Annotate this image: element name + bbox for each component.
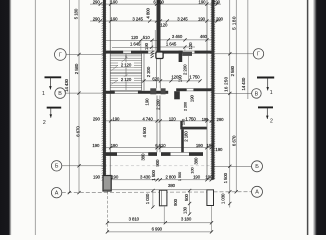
wall low winB — [171, 152, 190, 154]
dim row7 line — [104, 147, 214, 149]
wall center lower line b — [159, 96, 161, 153]
svg-text:190: 190 — [178, 75, 183, 83]
svg-text:190: 190 — [196, 143, 204, 148]
ext line bath left — [154, 30, 156, 50]
grid bubble V right — [252, 89, 262, 99]
wall left footing — [103, 176, 111, 192]
svg-text:120: 120 — [131, 35, 139, 40]
dim row6 line — [104, 120, 214, 122]
wall top right segA — [160, 51, 182, 54]
svg-text:2 580: 2 580 — [230, 65, 235, 76]
svg-text:130: 130 — [182, 206, 187, 214]
svg-text:2: 2 — [270, 118, 273, 124]
svg-text:190: 190 — [111, 175, 119, 180]
stair U-flights — [110, 54, 141, 90]
dim row4 left — [112, 46, 157, 48]
svg-text:Б: Б — [55, 164, 59, 170]
svg-text:1 500: 1 500 — [151, 170, 156, 181]
svg-text:190: 190 — [202, 117, 209, 122]
grid bubble B left — [51, 161, 61, 171]
right dim line v1 — [229, 0, 231, 208]
wall right-unit corridor stub — [180, 121, 182, 127]
svg-text:190: 190 — [193, 175, 201, 180]
sheet edge line left — [34, 0, 36, 235]
svg-text:4 800: 4 800 — [146, 8, 151, 19]
dim row3 left — [104, 39, 157, 41]
wall top right opening — [183, 50, 195, 52]
wall top left thin — [148, 50, 156, 52]
svg-text:900: 900 — [155, 159, 160, 167]
svg-text:500: 500 — [184, 193, 189, 201]
svg-text:130: 130 — [180, 118, 185, 125]
svg-text:120: 120 — [169, 117, 177, 122]
svg-text:2 200: 2 200 — [182, 64, 187, 75]
ext line r3 b — [151, 40, 153, 50]
dim row4 right — [161, 46, 196, 48]
svg-text:510: 510 — [143, 35, 151, 40]
svg-text:3 245: 3 245 — [177, 16, 188, 21]
wall mid-left opening — [115, 90, 138, 92]
wall low segA — [104, 152, 117, 156]
svg-text:В: В — [58, 91, 62, 97]
grid line A left — [62, 192, 104, 194]
grid line B inside — [104, 165, 213, 167]
svg-text:190: 190 — [215, 147, 223, 152]
grid bubble V left — [55, 88, 66, 99]
svg-text:3 245: 3 245 — [132, 16, 143, 21]
grid bubble A left — [51, 188, 61, 198]
svg-text:А: А — [55, 191, 59, 197]
grid line B left — [62, 165, 103, 167]
photo letterbox bar left — [0, 0, 12, 235]
svg-text:290: 290 — [93, 16, 101, 21]
svg-text:1 750: 1 750 — [185, 117, 196, 122]
grid line A right — [214, 191, 252, 193]
svg-text:120: 120 — [160, 22, 168, 27]
porch edge line — [104, 189, 214, 191]
svg-text:190: 190 — [111, 16, 119, 21]
wall mid-right opening — [187, 88, 194, 90]
wall top left segA — [104, 51, 123, 54]
wall top right segB — [195, 51, 212, 54]
svg-text:190: 190 — [145, 98, 150, 106]
section mark 1 right — [257, 77, 274, 79]
svg-text:900: 900 — [173, 198, 178, 206]
svg-text:460: 460 — [200, 34, 208, 39]
left dim line v1 — [68, 0, 70, 193]
svg-text:190: 190 — [93, 175, 101, 180]
grid bubble G right — [253, 49, 263, 59]
svg-text:1 500: 1 500 — [223, 172, 228, 183]
svg-text:16 250: 16 250 — [223, 76, 228, 91]
svg-text:1 750: 1 750 — [189, 75, 200, 80]
svg-text:А: А — [255, 190, 259, 196]
grid line A inside — [104, 191, 214, 193]
dim row9 line — [107, 222, 211, 224]
dim row10 line — [107, 231, 211, 233]
svg-text:190: 190 — [144, 42, 149, 50]
ext line r3 a — [140, 40, 142, 53]
svg-text:290: 290 — [93, 0, 101, 4]
svg-text:380: 380 — [194, 157, 199, 165]
wall left inner face — [109, 0, 111, 180]
svg-text:3 460: 3 460 — [172, 34, 183, 39]
svg-text:Г: Г — [59, 52, 62, 58]
svg-text:190: 190 — [112, 117, 120, 122]
svg-text:6 670: 6 670 — [231, 135, 236, 146]
ext line porch dim right — [189, 190, 191, 215]
grid line V left — [65, 92, 103, 94]
dim row5 620 — [142, 80, 201, 82]
wall top left segB — [131, 51, 148, 54]
ext line r4 r — [184, 47, 186, 51]
grid line G left — [66, 54, 103, 56]
stair label flight2 halo — [118, 77, 134, 82]
svg-text:14 430: 14 430 — [241, 77, 246, 90]
svg-text:190: 190 — [198, 16, 206, 21]
svg-text:290: 290 — [93, 117, 101, 122]
wall center lower line a — [156, 96, 158, 153]
svg-text:190: 190 — [92, 143, 100, 148]
dim row2 line — [90, 20, 221, 22]
dim row1 line — [90, 3, 221, 5]
svg-text:5 180: 5 180 — [231, 16, 236, 30]
right dim line v2 — [235, 0, 237, 192]
dimension ticks — [68, 3, 238, 234]
wall left exterior band — [103, 0, 106, 180]
svg-text:4 500: 4 500 — [142, 126, 147, 137]
svg-text:620: 620 — [152, 77, 160, 82]
grid line G right — [214, 53, 253, 55]
svg-text:14 430: 14 430 — [64, 78, 69, 91]
fixture vanity right unit — [182, 52, 192, 56]
wall low segD — [189, 152, 203, 156]
svg-text:В: В — [255, 91, 259, 97]
grid line B right — [214, 165, 251, 167]
svg-text:2 200: 2 200 — [156, 99, 161, 110]
wall right-unit bath vertical — [179, 51, 183, 62]
svg-text:3 810: 3 810 — [129, 217, 140, 222]
dim line v right-unit — [187, 56, 189, 81]
wall right inner face — [206, 0, 208, 180]
grid bubble B right — [252, 161, 263, 172]
svg-text:290: 290 — [217, 117, 225, 122]
dim row8 line — [104, 179, 214, 181]
svg-text:4 740: 4 740 — [142, 117, 153, 122]
svg-text:190: 190 — [111, 0, 119, 4]
door hatch marks left bath — [151, 51, 154, 58]
stair label flight1 halo — [118, 62, 134, 67]
section mark 1 left — [45, 76, 62, 78]
fixture WC on axis — [156, 52, 163, 59]
porch column left inner line — [160, 190, 162, 206]
wall mid-right segA — [176, 88, 187, 91]
wall right-unit bedroom vertical — [181, 129, 184, 152]
svg-text:2 200: 2 200 — [184, 102, 188, 111]
section mark 2 left — [47, 107, 62, 109]
svg-text:6 600: 6 600 — [153, 0, 164, 5]
ext line bottom right — [211, 206, 213, 233]
wall mid-left segA — [104, 91, 115, 94]
wall stair partition — [141, 54, 143, 91]
svg-text:2 800: 2 800 — [166, 175, 177, 180]
svg-text:190: 190 — [190, 94, 195, 102]
grid line V right — [214, 92, 251, 94]
svg-text:2 120: 2 120 — [121, 77, 132, 82]
svg-text:3 180: 3 180 — [181, 217, 192, 222]
right bubble leader — [247, 0, 249, 99]
wall right column footing — [207, 190, 214, 206]
svg-text:5 180: 5 180 — [74, 8, 79, 19]
wall low winA — [117, 152, 148, 154]
svg-text:Б: Б — [255, 164, 259, 170]
wall mid-right segB — [193, 88, 211, 91]
wall mid-left segB — [138, 91, 168, 94]
svg-text:380: 380 — [168, 183, 176, 188]
wall left hatch — [102, 1, 107, 180]
ext line bottom left — [106, 192, 108, 233]
svg-text:Г: Г — [257, 52, 260, 58]
section mark 2 right — [258, 106, 273, 108]
svg-text:290: 290 — [213, 0, 221, 4]
svg-text:6 610: 6 610 — [155, 143, 166, 148]
svg-text:2 120: 2 120 — [121, 62, 132, 67]
porch column left — [159, 190, 167, 206]
svg-text:290: 290 — [216, 16, 224, 21]
svg-text:2 580: 2 580 — [74, 63, 79, 74]
svg-text:190: 190 — [199, 0, 207, 4]
svg-text:380: 380 — [141, 153, 146, 161]
wall top left opening — [123, 50, 131, 52]
sheet edge line right — [307, 0, 309, 235]
svg-text:190: 190 — [206, 143, 214, 148]
wall low segB — [148, 152, 157, 156]
svg-text:6 670: 6 670 — [75, 126, 80, 137]
svg-text:120: 120 — [188, 42, 193, 50]
wall mid-right stub — [174, 91, 180, 99]
svg-text:1 645: 1 645 — [130, 42, 141, 47]
left dim line v2 — [78, 0, 80, 193]
fixture kitchen right — [161, 88, 166, 94]
svg-text:2: 2 — [43, 120, 46, 126]
svg-text:3 430: 3 430 — [140, 175, 151, 180]
svg-text:1 645: 1 645 — [166, 41, 177, 46]
dim row3 right — [161, 39, 214, 41]
svg-text:1 030: 1 030 — [145, 193, 150, 204]
wall center mid thin — [155, 59, 157, 89]
svg-text:1: 1 — [270, 90, 273, 96]
svg-text:1: 1 — [42, 91, 45, 97]
fixture kitchen left — [150, 88, 156, 94]
svg-text:2 200: 2 200 — [146, 66, 151, 77]
svg-text:1 030: 1 030 — [221, 193, 226, 204]
ext line bottom mid — [163, 207, 165, 224]
wall right hatch — [211, 1, 216, 180]
photo letterbox bar right — [313, 0, 326, 235]
svg-text:2 180: 2 180 — [184, 131, 189, 142]
grid bubble G left — [55, 49, 67, 61]
svg-text:190: 190 — [111, 143, 119, 148]
wall right-unit corridor — [180, 127, 207, 130]
svg-text:100: 100 — [190, 166, 195, 173]
svg-text:1 500: 1 500 — [177, 171, 182, 181]
wall right exterior band — [211, 0, 214, 180]
svg-text:6 990: 6 990 — [152, 226, 163, 231]
svg-text:190: 190 — [205, 175, 213, 180]
grid bubble A right — [252, 186, 263, 197]
ext line porch dim left — [152, 190, 154, 208]
wall center upper — [157, 0, 161, 52]
wall low segC — [161, 152, 171, 156]
